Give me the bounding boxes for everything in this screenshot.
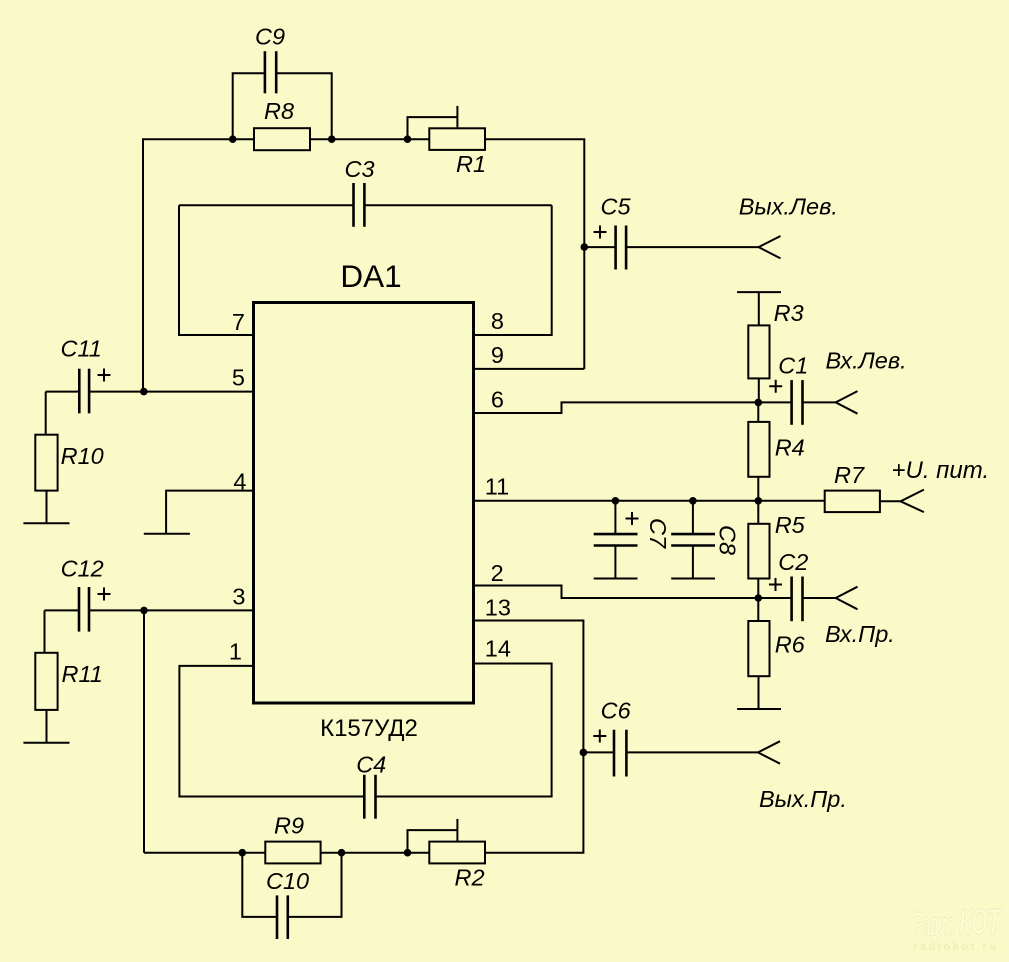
- svg-text:C11: C11: [61, 336, 102, 362]
- pin 7 wire: [179, 205, 254, 335]
- svg-text:C9: C9: [255, 24, 285, 50]
- svg-text:C2: C2: [778, 549, 808, 575]
- pin 9 wire: [474, 368, 585, 370]
- node: pin5/C11 junction: [140, 388, 148, 396]
- svg-text:R7: R7: [834, 462, 865, 488]
- svg-text:C12: C12: [61, 556, 104, 582]
- svg-text:C4: C4: [356, 752, 386, 778]
- resistor R4: [748, 402, 769, 500]
- svg-text:C1: C1: [778, 353, 808, 379]
- ground (R10): [23, 522, 69, 524]
- node: C5 junction: [581, 243, 589, 251]
- node: R4/R5/R7 junction: [755, 497, 763, 505]
- resistor R6: [748, 598, 769, 709]
- ground (C8): [671, 578, 715, 580]
- pin 2 wire: [474, 586, 792, 599]
- pin 14 wire: [376, 664, 552, 797]
- svg-text:К157УД2: К157УД2: [320, 715, 418, 742]
- svg-text:6: 6: [491, 387, 504, 413]
- svg-text:R4: R4: [775, 435, 805, 461]
- capacitor C10: [242, 853, 341, 939]
- svg-text:R10: R10: [61, 443, 104, 469]
- pin 1 wire: [179, 666, 364, 797]
- node: C2 junction: [755, 594, 763, 602]
- wire R2 to C6 branch: [485, 752, 583, 852]
- svg-text:C5: C5: [601, 194, 632, 220]
- svg-text:5: 5: [232, 365, 245, 391]
- svg-text:КОТ: КОТ: [959, 901, 1002, 942]
- svg-text:11: 11: [485, 474, 509, 500]
- svg-text:R1: R1: [456, 151, 486, 177]
- pin 6 wire: [474, 402, 792, 413]
- power rail bar (top): [737, 291, 781, 293]
- wire: top feedback rail: [143, 139, 254, 391]
- output arrow Вых.Пр.: [758, 741, 780, 764]
- resistor R5: [748, 501, 769, 598]
- resistor R10: [35, 392, 57, 524]
- ground (R6): [737, 708, 781, 710]
- resistor R9: [265, 842, 320, 864]
- capacitor C9: [233, 51, 332, 139]
- ground (R11): [23, 742, 69, 744]
- svg-text:8: 8: [491, 308, 504, 334]
- svg-text:Вых.Пр.: Вых.Пр.: [759, 786, 847, 812]
- svg-text:3: 3: [232, 584, 245, 610]
- capacitor C3: [179, 183, 552, 227]
- pin 8 wire: [474, 205, 552, 335]
- wire R8 to R1: [310, 138, 429, 140]
- svg-text:R8: R8: [264, 98, 294, 124]
- svg-text:13: 13: [485, 595, 511, 621]
- node: C7 junction: [612, 497, 620, 505]
- capacitor C2: [769, 577, 836, 622]
- wire C12 node down to R9 rail: [143, 610, 145, 852]
- svg-text:Вх.Пр.: Вх.Пр.: [825, 621, 895, 647]
- resistor R7: [825, 491, 901, 512]
- ground (C7): [594, 578, 638, 580]
- pin 5 wire: [89, 391, 253, 393]
- capacitor C7: [594, 501, 639, 579]
- resistor R2 (trimmer): [408, 819, 486, 863]
- node: C8 junction: [689, 497, 697, 505]
- svg-text:R2: R2: [455, 865, 485, 891]
- pin 3 wire: [89, 609, 254, 611]
- resistor R8: [254, 128, 310, 150]
- svg-text:1: 1: [229, 639, 242, 665]
- svg-text:C3: C3: [345, 156, 375, 182]
- svg-text:C8: C8: [715, 525, 741, 555]
- pin 4 wire: [166, 491, 253, 534]
- svg-text:radiokot.ru: radiokot.ru: [913, 941, 996, 953]
- resistor R3: [748, 292, 769, 402]
- capacitor C4: [364, 775, 375, 819]
- node: R1 left junction: [404, 135, 412, 143]
- resistor R1 (trimmer): [408, 106, 486, 150]
- node: R2 left junction: [404, 849, 412, 857]
- svg-text:9: 9: [491, 342, 504, 368]
- svg-text:R11: R11: [62, 661, 103, 687]
- capacitor C5: [584, 226, 758, 270]
- svg-text:14: 14: [485, 636, 511, 662]
- node: C6 junction: [580, 749, 588, 757]
- svg-text:DA1: DA1: [340, 258, 401, 294]
- svg-text:R3: R3: [774, 300, 804, 326]
- input arrow Вх.Пр.: [836, 587, 858, 610]
- svg-text:R5: R5: [775, 512, 806, 538]
- node: R8 left junction: [229, 135, 237, 143]
- svg-text:R6: R6: [775, 632, 806, 658]
- resistor R11: [35, 610, 57, 742]
- node: pin3/C12 junction: [140, 607, 148, 615]
- svg-text:C7: C7: [645, 518, 671, 549]
- capacitor C12: [45, 587, 111, 632]
- svg-text:Вх.Лев.: Вх.Лев.: [826, 348, 907, 374]
- wire R9 to R2: [321, 852, 430, 854]
- capacitor C8: [671, 501, 715, 579]
- capacitor C6: [583, 730, 758, 777]
- power arrow +U. пит.: [901, 490, 924, 512]
- wire bottom rail left: [144, 852, 265, 854]
- ground (pin 4): [144, 533, 190, 535]
- svg-text:C10: C10: [266, 868, 309, 894]
- output arrow Вых.Лев.: [759, 236, 781, 258]
- node: R8 right junction: [328, 135, 336, 143]
- svg-text:Радио: Радио: [914, 905, 955, 942]
- node: R9 right junction: [338, 849, 346, 857]
- capacitor C11: [46, 369, 111, 414]
- svg-text:+U. пит.: +U. пит.: [892, 457, 990, 484]
- svg-text:C6: C6: [601, 698, 632, 724]
- input arrow Вх.Лев.: [836, 391, 858, 414]
- svg-text:R9: R9: [274, 813, 304, 839]
- watermark РадиоКОТ: [913, 901, 1002, 953]
- pin 11 wire: [474, 500, 825, 502]
- op-amp DA1 (K157UD2) body: [254, 303, 474, 704]
- node: R9 left junction: [239, 849, 247, 857]
- svg-text:7: 7: [232, 309, 245, 335]
- svg-text:Вых.Лев.: Вых.Лев.: [739, 194, 838, 220]
- wire R1 to C5 branch: [485, 139, 584, 369]
- node: C1 junction: [755, 399, 763, 407]
- svg-text:2: 2: [491, 560, 504, 586]
- pin 13 wire: [474, 621, 584, 753]
- capacitor C1: [769, 380, 836, 425]
